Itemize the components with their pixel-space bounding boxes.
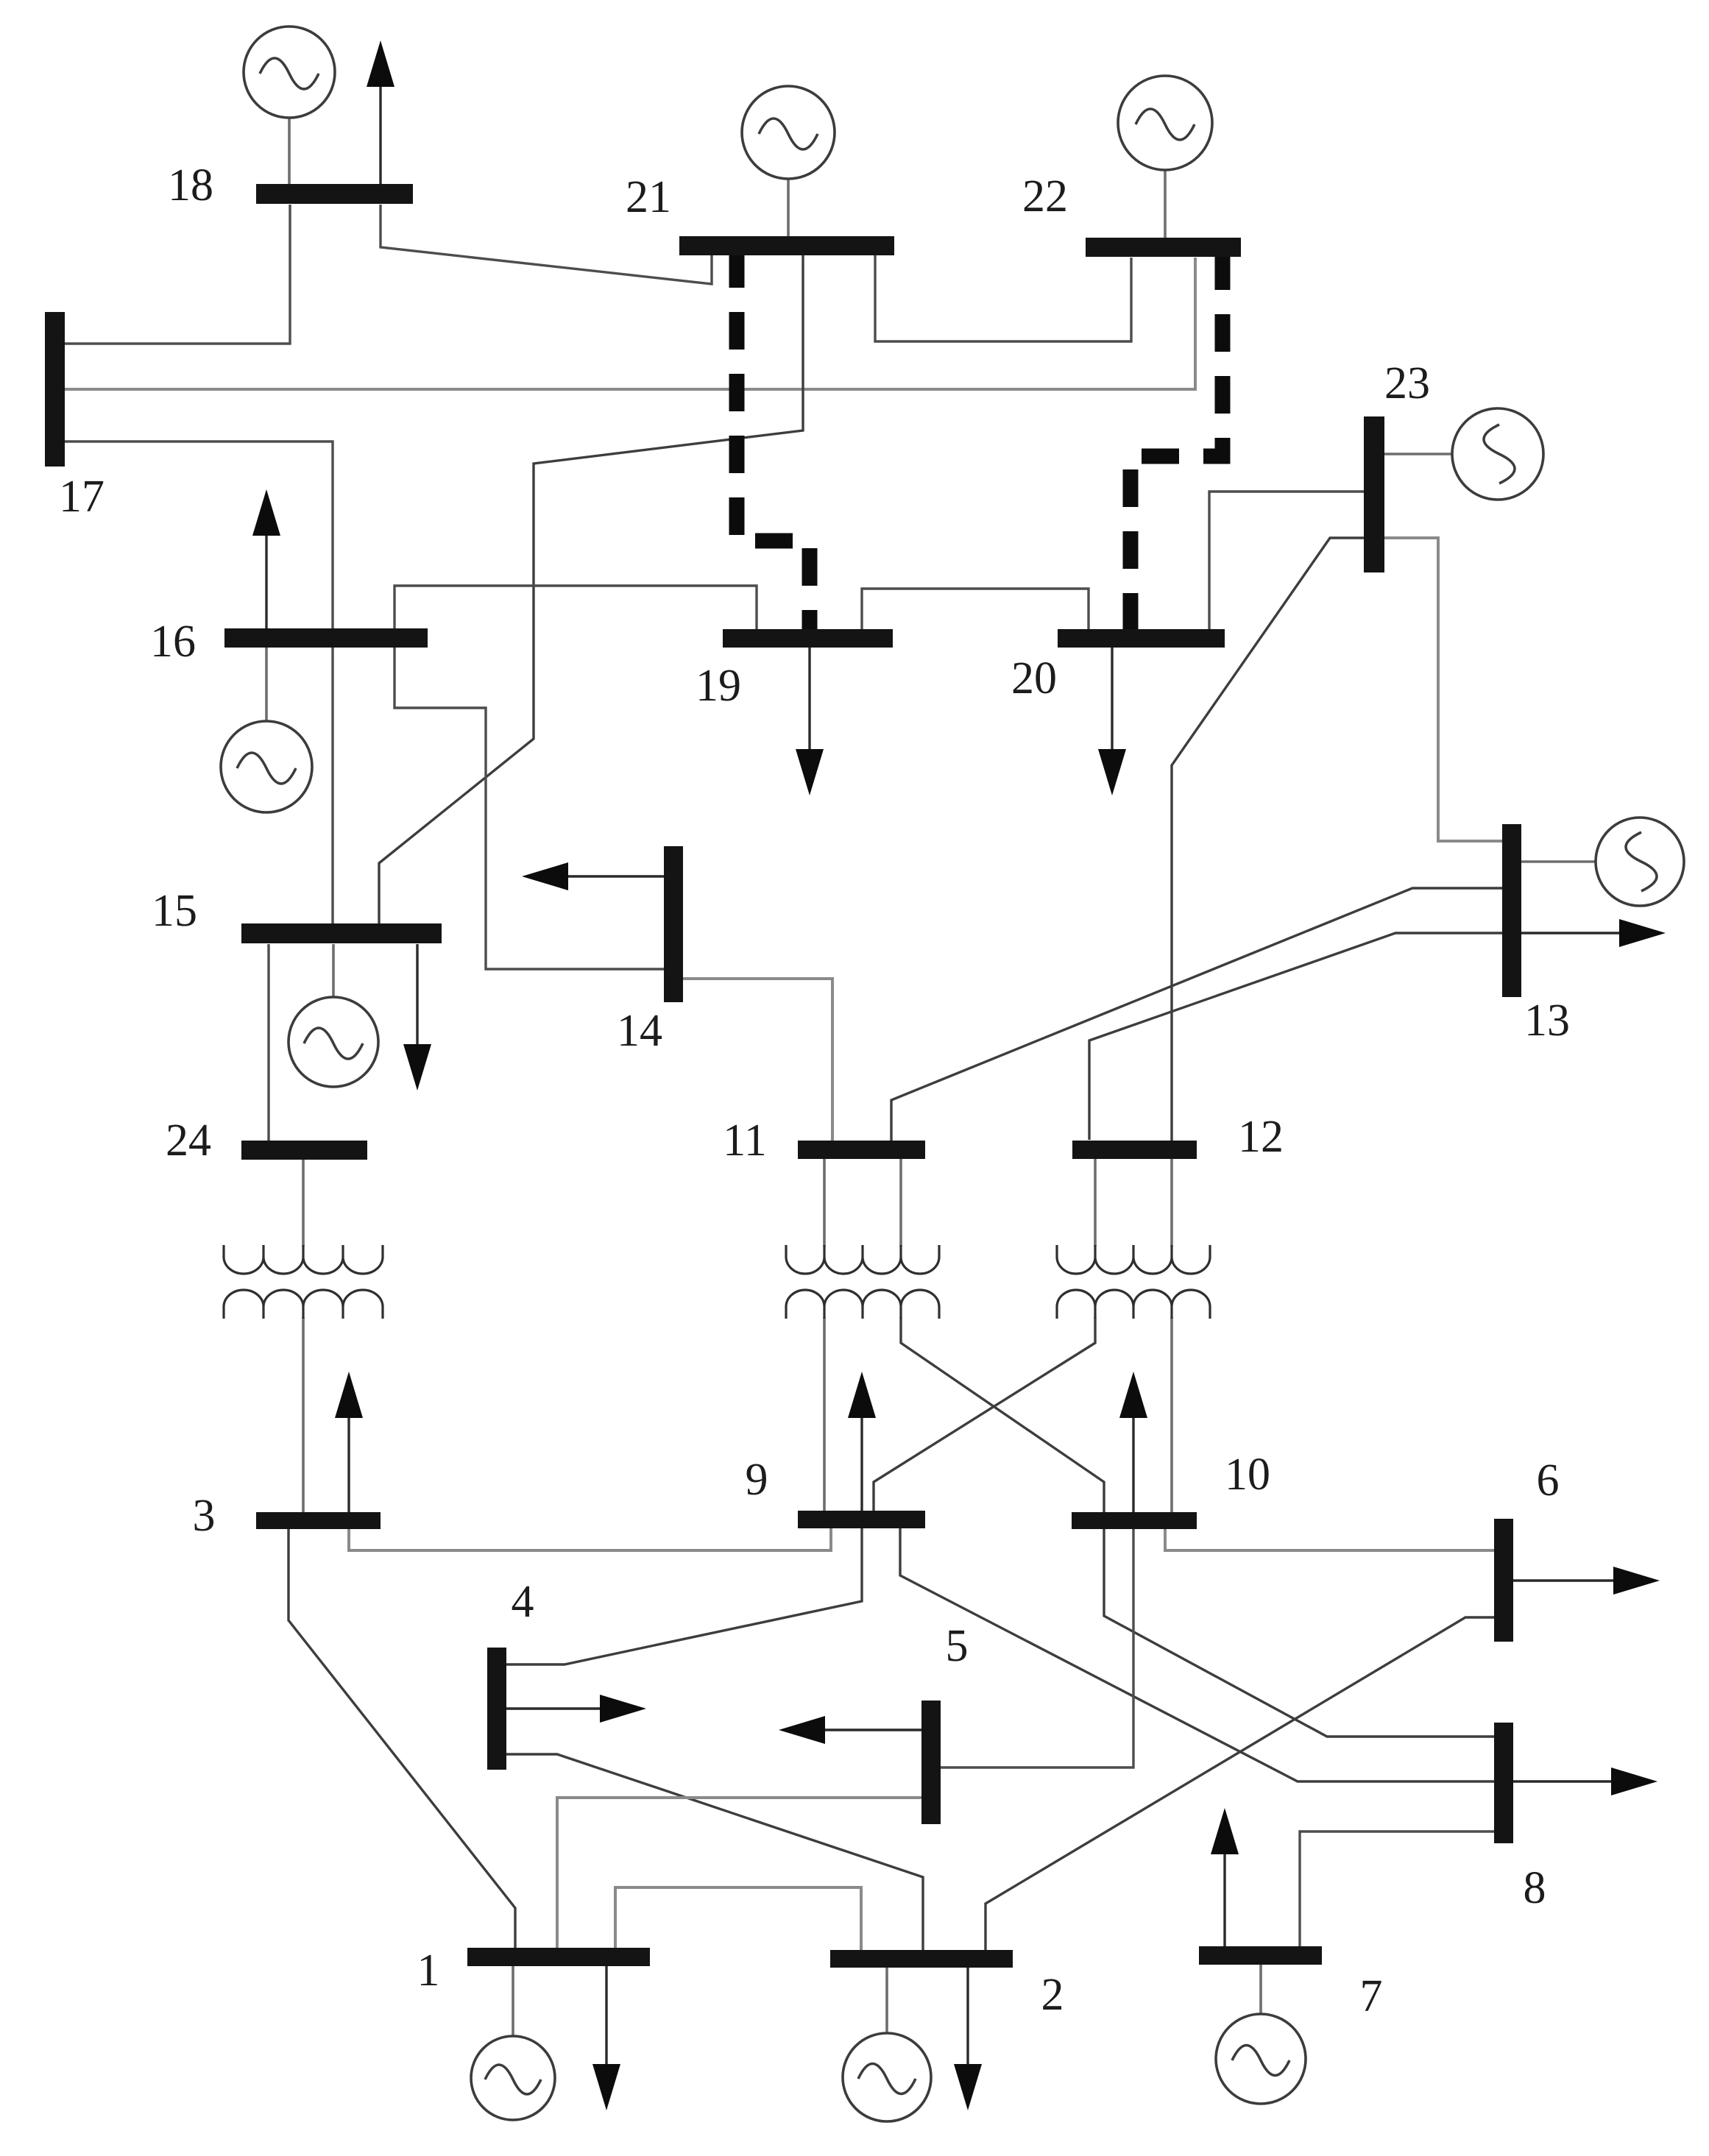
- transformer T12-10 windings: [1057, 1245, 1210, 1319]
- generator G2: [843, 1968, 931, 2121]
- load L16 up: [252, 489, 280, 628]
- generator G23: [1384, 408, 1543, 500]
- wire line 8-10: [1104, 1528, 1495, 1737]
- wire line 11-14: [682, 979, 832, 1141]
- load L5 left: [779, 1716, 921, 1744]
- wire dashed tie 22-20: [1131, 252, 1223, 631]
- svg-text:15: 15: [152, 886, 197, 936]
- svg-text:13: 13: [1524, 996, 1570, 1046]
- bus 5: [921, 1701, 941, 1824]
- load L1 down: [592, 1966, 620, 2110]
- bus 7: [1199, 1946, 1322, 1965]
- bus 13: [1502, 824, 1521, 997]
- load L19 down: [796, 648, 824, 795]
- generator G13: [1521, 818, 1684, 906]
- bus 15: [241, 923, 442, 943]
- bus 16: [224, 628, 428, 648]
- bus 1: [467, 1948, 650, 1966]
- wire line 19-20: [862, 589, 1089, 630]
- load L6 right: [1513, 1567, 1660, 1595]
- generator G18: [244, 26, 335, 184]
- bus 19: [723, 629, 893, 648]
- wire line 15-24: [267, 944, 269, 1141]
- svg-text:21: 21: [626, 172, 671, 222]
- wire line 3-9: [349, 1528, 831, 1550]
- load L8 right: [1513, 1767, 1657, 1795]
- svg-text:5: 5: [946, 1621, 969, 1671]
- transformer T11-9 windings: [786, 1245, 939, 1319]
- svg-text:1: 1: [417, 1946, 440, 1996]
- wire line 16-19: [394, 586, 757, 630]
- wire line 5-10: [941, 1528, 1133, 1767]
- transformer T11-9 leads: [824, 1159, 901, 1511]
- bus 23: [1364, 416, 1384, 572]
- svg-text:9: 9: [746, 1455, 768, 1505]
- wire line 6-10: [1165, 1528, 1495, 1550]
- generator G22: [1118, 76, 1212, 238]
- svg-text:10: 10: [1225, 1450, 1270, 1500]
- bus 20: [1058, 629, 1225, 648]
- svg-text:19: 19: [696, 661, 741, 711]
- svg-text:7: 7: [1360, 1971, 1383, 2021]
- wire line 2-6: [986, 1617, 1495, 1950]
- transformer T12-10 leads: [1095, 1158, 1172, 1512]
- wire line 4-9: [506, 1528, 862, 1664]
- wire transformer T11-9 lead to bus 10: [901, 1317, 1104, 1512]
- bus 24: [241, 1141, 367, 1160]
- load L9 up: [848, 1372, 876, 1511]
- TRANSFORMERS: [224, 1158, 1210, 1512]
- load L3 up: [335, 1372, 363, 1512]
- bus 9: [798, 1511, 925, 1528]
- wire line 17-22: [65, 258, 1195, 389]
- svg-text:14: 14: [617, 1006, 662, 1056]
- load L18 up: [367, 40, 394, 184]
- wire line 17-18: [65, 205, 290, 344]
- load L7 up: [1211, 1808, 1239, 1946]
- wire line 1-2: [615, 1887, 861, 1950]
- wire line 12-23: [1172, 538, 1364, 1141]
- transformer T24-3 leads: [302, 1160, 305, 1512]
- svg-text:24: 24: [166, 1116, 211, 1166]
- wire line 1-5: [557, 1798, 921, 1948]
- wire transformer T12-10 lead to bus 9: [874, 1317, 1095, 1511]
- generator G21: [742, 86, 835, 236]
- generator G7: [1216, 1965, 1306, 2104]
- bus 22: [1086, 238, 1241, 257]
- bus 14: [664, 846, 683, 1002]
- wire line 20-23: [1209, 492, 1364, 630]
- bus 11: [798, 1141, 925, 1159]
- bus 21: [679, 236, 894, 255]
- load L15 down: [403, 944, 431, 1091]
- bus 3: [256, 1512, 381, 1529]
- generator G15: [289, 944, 378, 1087]
- LOADS: [252, 40, 1666, 2110]
- wire line 11-13: [891, 888, 1502, 1141]
- svg-text:17: 17: [59, 472, 105, 522]
- wire line 21-22: [875, 255, 1131, 341]
- bus 10: [1072, 1512, 1197, 1529]
- bus 18: [256, 184, 413, 204]
- svg-text:2: 2: [1041, 1970, 1064, 2020]
- svg-text:16: 16: [150, 617, 196, 667]
- load L20 down: [1098, 648, 1126, 795]
- DASHED: [737, 250, 1223, 631]
- wire line 16-17: [65, 442, 333, 628]
- svg-text:20: 20: [1011, 653, 1057, 703]
- wire line 7-8: [1300, 1831, 1495, 1946]
- load L4 right: [506, 1695, 646, 1723]
- svg-text:11: 11: [723, 1116, 767, 1166]
- wire line 1-3: [289, 1528, 515, 1948]
- wire line 16-14: [394, 648, 665, 969]
- bus 12: [1072, 1141, 1197, 1159]
- svg-text:3: 3: [193, 1491, 216, 1541]
- svg-text:22: 22: [1022, 171, 1068, 221]
- generator G16: [221, 648, 312, 812]
- bus 17: [45, 312, 65, 467]
- transformer T24-3 windings: [224, 1245, 383, 1319]
- wire dashed tie 21-19: [737, 250, 810, 631]
- generator G1: [471, 1966, 555, 2120]
- load L10 up: [1119, 1372, 1147, 1512]
- bus 2: [830, 1950, 1013, 1968]
- svg-text:4: 4: [512, 1577, 534, 1627]
- svg-text:8: 8: [1524, 1863, 1546, 1913]
- wire line 15-16: [331, 648, 333, 923]
- svg-text:12: 12: [1238, 1112, 1284, 1162]
- wire line 18-21: [381, 205, 712, 284]
- wire line 15-21: [379, 255, 803, 923]
- svg-text:6: 6: [1537, 1455, 1560, 1506]
- BUSES: [45, 184, 1521, 1968]
- svg-text:23: 23: [1384, 358, 1430, 408]
- wire line 12-13: [1089, 933, 1502, 1140]
- load L14 left: [522, 862, 664, 890]
- wire line 2-4: [506, 1754, 923, 1950]
- svg-text:18: 18: [168, 160, 213, 210]
- bus 8: [1494, 1723, 1513, 1843]
- bus 6: [1494, 1519, 1513, 1642]
- bus 4: [487, 1648, 506, 1770]
- load L13 right: [1521, 919, 1666, 947]
- load L2 down: [954, 1968, 982, 2110]
- wire line 13-23: [1384, 538, 1502, 841]
- wire line 8-9: [900, 1528, 1495, 1781]
